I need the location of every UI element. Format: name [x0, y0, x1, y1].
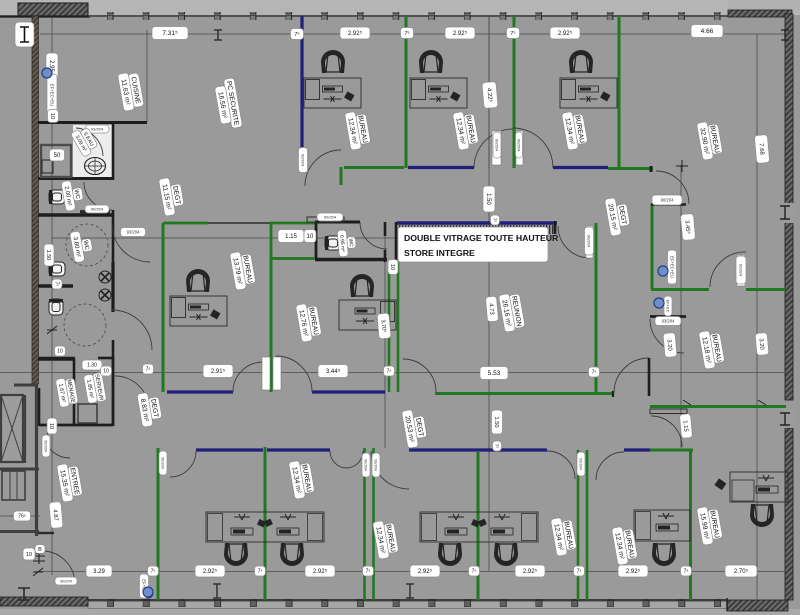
door tag 4: [317, 213, 343, 221]
dim 1.50 mid: [483, 186, 495, 212]
svg-text:90/204: 90/204: [495, 139, 500, 152]
dim 10 a: [48, 110, 59, 123]
desk bureau bottom right: [634, 510, 690, 541]
tag EF+EC+EU a: [668, 250, 677, 284]
door arc wc 2.00: [84, 182, 112, 210]
svg-text:WC: WC: [347, 238, 354, 247]
elevator east wall: [24, 395, 26, 463]
door arc entree side: [170, 451, 196, 477]
green partition bottom 2b: [372, 448, 375, 600]
water point entree facade: [143, 588, 153, 598]
dim tick left: [47, 326, 57, 334]
small sink wc2.00: [42, 160, 53, 173]
water point left facade (top): [42, 68, 52, 78]
cap: [162, 448, 166, 450]
svg-text:93/204: 93/204: [579, 458, 583, 470]
door arc corridor east: [614, 358, 649, 393]
glazed wall double vitrage: [397, 221, 557, 224]
chair bottom 2b: [494, 543, 518, 566]
cabinet below green wall: [650, 409, 687, 414]
dim 3.29: [86, 565, 112, 577]
door arc bureau 12.76: [276, 356, 312, 392]
wall 32.90 south green: [619, 167, 653, 170]
water point left facade: [42, 68, 52, 78]
dim 1.50 low: [492, 410, 503, 434]
room label WC 3.80: [70, 229, 95, 263]
serveur rack: [78, 404, 97, 423]
dim 7-5 i: [255, 566, 266, 576]
stair block wall h2: [0, 530, 39, 533]
svg-text:7⁵: 7⁵: [53, 282, 59, 287]
svg-text:90/204: 90/204: [301, 154, 306, 167]
jamb: [612, 391, 614, 397]
wall s-eau / wc2.00: [38, 177, 113, 180]
bureau south wall glazed segment 1: [408, 166, 474, 169]
water point 12.18 (top): [654, 298, 664, 308]
door arc small room: [650, 319, 684, 353]
desk bureau 15.99: [714, 472, 788, 502]
room label SERVEUR: [83, 372, 106, 403]
svg-text:7⁵: 7⁵: [151, 569, 156, 575]
room label BUREAU 12.76: [295, 302, 322, 343]
door arc wc 3.80: [112, 224, 150, 262]
svg-text:2.92⁵: 2.92⁵: [348, 30, 363, 37]
bottom glazed 2: [267, 448, 330, 451]
svg-text:90/204: 90/204: [161, 457, 165, 469]
tag EF+EC+EU left: [47, 74, 57, 116]
door tag 6: [516, 132, 523, 158]
svg-text:2.92⁵: 2.92⁵: [523, 568, 538, 575]
dim 4.87: [49, 502, 63, 529]
dim 2.92 e: [305, 565, 335, 577]
dim 2.95: [46, 53, 58, 79]
desk bureau2: [410, 78, 467, 108]
wc0.95 south wall: [315, 258, 387, 261]
band below bottom facade: [0, 609, 800, 615]
dim 4.73: [485, 296, 498, 322]
svg-text:EF+EC+EU: EF+EC+EU: [670, 256, 675, 278]
door tag 5: [493, 132, 501, 158]
dim 1.50 left: [44, 244, 54, 266]
chair bureau 15.99: [750, 504, 774, 527]
door leaf slab pc-securite: [300, 148, 308, 172]
dim 10 f: [47, 418, 57, 434]
dim 7-5 g: [493, 441, 502, 451]
svg-text:90/204: 90/204: [44, 440, 48, 452]
dim 7-5 m: [681, 566, 692, 576]
vertical grid line B: [146, 30, 148, 122]
double door arc right leaf: [513, 128, 553, 168]
wc0.95 north wall: [315, 221, 360, 224]
svg-text:90/204: 90/204: [739, 264, 744, 277]
room label BUREAU 13.79: [229, 250, 256, 291]
svg-text:7⁵: 7⁵: [493, 218, 498, 223]
right wall window column symbol: [780, 206, 790, 219]
dim 3.20 a: [663, 333, 677, 358]
door arc last: [596, 452, 624, 480]
partition bureau3 / bureau 32.90: [618, 16, 621, 167]
green west wall bureau 13.79: [162, 223, 165, 392]
room label BUREAU g: [611, 525, 638, 566]
svg-text:1.50: 1.50: [45, 250, 51, 261]
stub wall at end of left facade: [14, 384, 36, 387]
extract fan 1: [99, 271, 111, 283]
dim 1.15: [278, 230, 304, 243]
door arc pc-securite to degt: [305, 150, 341, 186]
green wall south of wc corridor: [271, 257, 315, 260]
wc0.95 west wall: [315, 222, 318, 259]
door arc bureau mid: [371, 451, 409, 489]
water point 12.18: [654, 298, 664, 308]
tag EF+EC+EU b: [664, 296, 672, 316]
green partition bottom 4a: [577, 450, 580, 600]
green wall reunion west: [397, 262, 400, 392]
bureau south wall glazed segment 2: [553, 166, 608, 169]
svg-text:7⁵: 7⁵: [366, 569, 371, 575]
desk bureau 13.79: [170, 296, 227, 326]
chair bureau 13.79: [186, 269, 210, 292]
vertical grid line F: [756, 34, 758, 600]
dim 1.30: [82, 360, 102, 370]
dim 2.92 g: [515, 565, 545, 577]
door arc double a: [330, 451, 347, 468]
cabinet above wc: [307, 217, 344, 222]
window break right wall lower: [783, 410, 795, 428]
exterior wall: top-right masonry band: [728, 10, 792, 17]
svg-text:EF+EC+EU: EF+EC+EU: [50, 84, 55, 106]
dim 76: [14, 511, 31, 521]
dim 7-5 left: [52, 279, 62, 289]
door tag 8: [652, 195, 682, 205]
svg-text:B: B: [38, 547, 42, 553]
post east of corridor door: [648, 358, 651, 396]
dim tick left2: [47, 426, 57, 434]
desk bureau3: [560, 78, 617, 108]
bureau south wall green segment: [344, 166, 404, 169]
vertical grid line E: [680, 165, 682, 448]
svg-text:10: 10: [57, 349, 63, 355]
door tag 3: [299, 148, 308, 173]
green wall to wc: [270, 222, 315, 225]
svg-text:10: 10: [103, 369, 109, 375]
dim 50: [50, 149, 65, 161]
dim 3.70: [377, 313, 391, 339]
room label REUNION: [498, 292, 525, 333]
svg-text:3.20: 3.20: [666, 339, 673, 351]
tag EF+EU: [140, 574, 149, 598]
green partition bottom 1: [264, 452, 267, 600]
wall cuisine / s-eau: [38, 121, 147, 124]
cross tick at 32.90 door: [676, 160, 688, 172]
bottom curtain-wall band: [88, 602, 727, 609]
exterior wall: right masonry lower: [785, 428, 793, 600]
svg-text:1.30: 1.30: [87, 363, 97, 369]
cabinet below wc2.00 door tag: [80, 210, 110, 214]
dim 2.91: [203, 365, 233, 378]
svg-text:93/204: 93/204: [127, 229, 140, 234]
svg-text:90/204: 90/204: [517, 139, 522, 152]
chair bottom right: [652, 543, 676, 566]
top dimension line: [40, 33, 786, 35]
room label ENTREE: [56, 462, 83, 503]
room label MENAGE: [55, 376, 78, 407]
chair bureau 12.76: [350, 274, 374, 297]
dim 1.15 b: [679, 414, 692, 439]
green partition bottom 4b: [586, 450, 589, 600]
dim tick I-beam top2: [781, 30, 789, 40]
svg-text:7⁵: 7⁵: [258, 569, 263, 575]
svg-text:3.20: 3.20: [758, 338, 765, 350]
entree jamb wall: [38, 532, 54, 534]
green wall reunion east: [595, 223, 598, 393]
stair flight: [2, 471, 25, 500]
toilet wc 2.00: [49, 190, 65, 204]
menage west wall: [38, 388, 41, 426]
dim 7.68: [754, 134, 769, 163]
svg-text:2.92⁵: 2.92⁵: [453, 30, 468, 37]
double door arc left leaf: [474, 129, 513, 168]
svg-text:EF+EC: EF+EC: [666, 299, 671, 312]
door arc 12.18 north: [710, 252, 746, 287]
exterior wall: left masonry: [32, 16, 39, 384]
exterior wall: top-left masonry block: [18, 3, 88, 16]
serveur east wall: [112, 358, 115, 426]
partition bureau1 / bureau2: [405, 16, 408, 168]
door tag 10: [736, 256, 746, 284]
tag B: [35, 545, 45, 554]
lighter band above top facade: [0, 0, 800, 15]
svg-text:1.15: 1.15: [682, 420, 689, 432]
chair bottom 2a: [438, 543, 462, 566]
door leaf slab 12.18: [737, 255, 745, 286]
stair dimension line: [0, 515, 40, 517]
door arc s-eau: [76, 128, 103, 156]
door leaf slab 1: [492, 131, 501, 165]
green west wall bureau row 1: [157, 448, 160, 600]
svg-text:3.44⁵: 3.44⁵: [326, 368, 341, 375]
room label DEGT 11.15: [158, 176, 185, 217]
room label DEGT 8.83: [137, 391, 163, 428]
dim 2.92 f: [410, 565, 440, 577]
svg-text:50: 50: [54, 153, 61, 159]
room label BUREAU 12.18: [698, 329, 725, 370]
door tag 15: [577, 452, 585, 476]
top curtain-wall line: [88, 15, 728, 17]
svg-text:3.29: 3.29: [93, 569, 105, 575]
dim tick bottom1: [213, 584, 221, 598]
middle south glazed 2: [312, 390, 385, 393]
dim 2.92 c: [550, 27, 580, 39]
door arc bureau 32.90: [656, 171, 689, 204]
green spur west of wc: [270, 223, 273, 259]
svg-text:7⁵: 7⁵: [684, 569, 689, 575]
room label BUREAU c: [561, 110, 588, 151]
room label CUISINE: [117, 71, 144, 112]
svg-text:2.92⁵: 2.92⁵: [313, 568, 328, 575]
menage serveur south wall: [39, 424, 113, 427]
dim 10 g: [23, 548, 35, 560]
room label BUREAU f: [550, 516, 577, 557]
door arc wc 1.78: [112, 310, 152, 350]
dim 10 c: [388, 260, 398, 275]
dim 7-5 l: [574, 566, 585, 576]
middle dimension line: [0, 372, 788, 374]
door arc reunion south: [403, 359, 436, 392]
toilet wc 0.95: [325, 236, 341, 250]
lighter strip top-right outside: [728, 0, 800, 10]
chair bureau1: [321, 50, 345, 73]
dim 7.31: [152, 27, 188, 40]
double desk bottom mid: [420, 512, 538, 542]
entrance door leaf B: [36, 546, 43, 554]
door tag 2: [121, 228, 146, 237]
door leaf slab 2: [516, 131, 523, 165]
green partition bottom 5: [689, 450, 692, 600]
corridor dimension line: [52, 237, 420, 239]
dim 7-5 d: [589, 367, 600, 377]
door jamb 32.90: [650, 166, 653, 172]
green wall degt20.15 / 32.90: [651, 204, 654, 289]
s-eau oval washbasin: [85, 158, 106, 175]
green wall top of bureau 13.79 a: [163, 222, 208, 225]
dim 7-5 k: [469, 566, 480, 576]
sanitary east wall mid: [112, 210, 115, 262]
door leaf slab p1: [262, 357, 270, 390]
svg-text:7⁵: 7⁵: [294, 31, 299, 38]
wall wc3.80 / wc1.78: [38, 284, 73, 287]
room label S EAU: [70, 125, 99, 158]
room label BUREAU a: [344, 110, 371, 151]
chair bottom 1a: [224, 543, 248, 566]
svg-text:76⁵: 76⁵: [18, 514, 26, 520]
svg-text:90/204: 90/204: [587, 235, 592, 248]
wc 3.80 turning circle: [66, 224, 108, 266]
dim 3.45: [680, 213, 695, 240]
stair block east wall: [35, 384, 38, 536]
entrance door swing tick: [33, 552, 45, 564]
desk bureau 12.76: [339, 300, 396, 330]
green partition 12.76 east: [388, 263, 391, 392]
svg-text:90/204: 90/204: [60, 579, 72, 583]
dim 2.70: [725, 565, 757, 577]
double desk bottom left: [206, 512, 324, 542]
door tag 7: [585, 227, 594, 255]
room label WC 2.00: [61, 179, 85, 212]
dim 2.92 h: [618, 565, 648, 577]
dim 7-5 a: [291, 29, 304, 40]
svg-text:1.50: 1.50: [493, 416, 499, 427]
svg-text:2.92⁵: 2.92⁵: [626, 568, 641, 575]
bottom dimension line: [36, 571, 788, 573]
comb hatch of glazed wall: [399, 225, 557, 234]
svg-text:90/204: 90/204: [91, 206, 104, 211]
green partition bottom 3: [477, 452, 480, 600]
svg-text:93/204: 93/204: [662, 318, 675, 323]
right wall window column symbol 2: [780, 413, 790, 425]
svg-text:4.22⁵: 4.22⁵: [485, 88, 493, 103]
svg-text:90/204: 90/204: [364, 459, 368, 471]
dim 7-5 h: [148, 566, 159, 576]
steel column symbol top-left: [15, 22, 34, 47]
middle south glazed 1: [167, 390, 233, 393]
green partition 13.79 / 12.76: [270, 259, 273, 392]
dim tick I-beam top1: [214, 30, 222, 40]
svg-text:2.92⁵: 2.92⁵: [558, 30, 573, 37]
door leaf slab p2: [273, 357, 281, 390]
svg-text:3.70⁵: 3.70⁵: [380, 319, 388, 333]
bottom curtain-wall line: [88, 599, 727, 601]
green south wall 12.18: [650, 405, 786, 408]
thin wall corridor: [208, 222, 270, 224]
sanitary east wall mid2: [111, 262, 114, 312]
stair block wall h1: [0, 468, 39, 471]
grid line between bureau2/3: [488, 15, 490, 168]
elevator shaft: [1, 395, 23, 462]
dim 4.22: [482, 81, 498, 108]
svg-text:7.68: 7.68: [758, 143, 765, 156]
wc 1.78 turning circle: [64, 304, 106, 346]
room label DEGT 20.53: [401, 408, 428, 449]
green post: [264, 447, 267, 453]
door arc bureau right: [547, 451, 575, 479]
bottom glazed 4: [624, 448, 650, 451]
green segment bottom wall: [650, 449, 693, 452]
svg-text:7⁵: 7⁵: [387, 369, 392, 375]
room label BUREAU 32.90: [696, 120, 723, 161]
dim tick bottom2: [406, 584, 414, 598]
bottom glazed 3: [409, 448, 547, 451]
room label BUREAU e: [372, 519, 399, 560]
dim 7-5 e: [143, 364, 154, 374]
serveur north wall: [98, 357, 113, 360]
door arc reunion east: [558, 226, 590, 258]
extract fan 2: [99, 289, 111, 301]
dim 10 b: [304, 230, 316, 243]
S EAU room white floor: [73, 125, 112, 177]
dim 2.92 a: [340, 27, 370, 39]
door tag 13: [362, 453, 370, 477]
door tag 12: [55, 577, 77, 585]
niche wall b: [395, 222, 398, 262]
svg-text:7⁵: 7⁵: [592, 370, 597, 376]
svg-text:2.91⁵: 2.91⁵: [211, 368, 226, 375]
dim 4.66: [691, 25, 723, 38]
dim 10 e: [55, 346, 66, 356]
door tag 9: [655, 317, 681, 326]
dim 7-5 mid: [491, 215, 500, 225]
room label DEGT 20.15: [604, 196, 631, 237]
svg-text:7⁵: 7⁵: [495, 444, 500, 449]
svg-text:5.53: 5.53: [488, 370, 501, 377]
svg-text:1.15: 1.15: [285, 234, 297, 240]
svg-text:4.66: 4.66: [701, 28, 714, 35]
svg-text:7⁵: 7⁵: [146, 367, 151, 373]
vertical grid line C: [384, 224, 386, 448]
sanitary east wall lower: [112, 340, 115, 360]
bottom curtain-wall columns: [105, 599, 735, 607]
exterior wall line top-left: [0, 15, 90, 17]
room label PC SECURITE: [213, 78, 242, 131]
svg-text:90/204: 90/204: [661, 197, 674, 202]
dim 7-5 f: [384, 366, 395, 376]
door tag 16: [159, 451, 167, 475]
svg-text:7.31⁵: 7.31⁵: [162, 30, 178, 37]
dim 2.92 d: [195, 565, 225, 577]
bottom glazed 1: [196, 448, 263, 451]
water point degt 20.15: [658, 266, 668, 276]
room label BUREAU d: [288, 459, 315, 500]
door leaf slab reunion: [586, 226, 593, 258]
